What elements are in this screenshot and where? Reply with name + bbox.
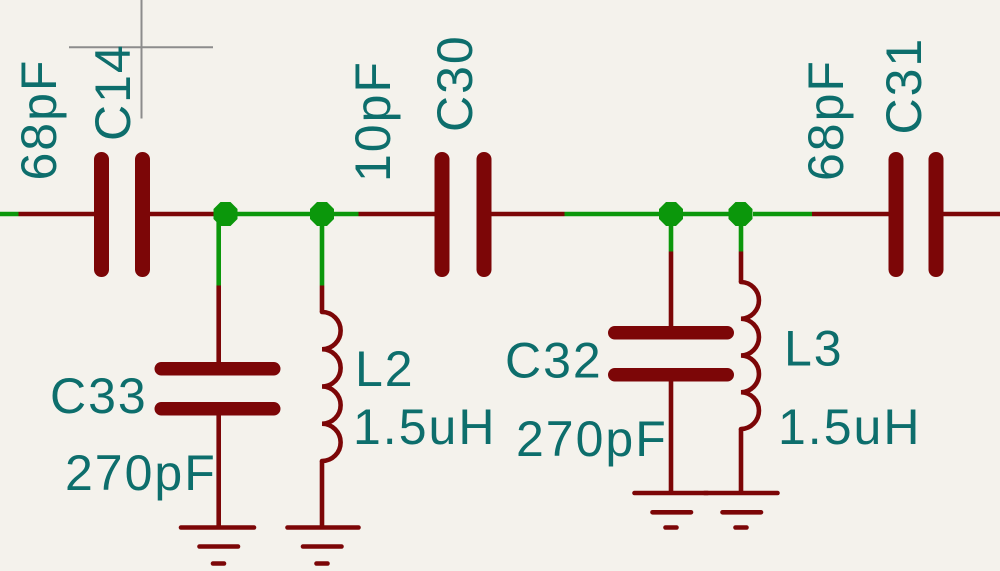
wire (C32 bottom lead, red) [669,382,674,494]
ground GND1 [181,528,254,564]
inductor L2 [322,312,341,461]
svg-text:68pF: 68pF [798,59,854,181]
node D junction [729,202,753,226]
inductor L3 [741,282,759,429]
ground GND2 [288,528,359,564]
wire (C33 bottom lead, red) [216,416,221,528]
svg-text:10pF: 10pF [345,60,401,182]
wire (L2 top lead, red) [320,286,325,313]
wire (L2 bottom lead, red) [320,461,325,528]
ground GND4 [705,493,778,528]
wire (C14 pin 1 lead, red) [19,212,95,217]
wire (node B to C30, green) [334,212,359,217]
wire (L3 top lead, red) [739,252,744,283]
svg-text:1.5uH: 1.5uH [778,399,921,455]
svg-text:68pF: 68pF [11,59,67,181]
node A junction [214,202,238,226]
svg-text:1.5uH: 1.5uH [353,399,496,455]
svg-text:C32: C32 [505,333,603,389]
svg-text:270pF: 270pF [65,445,217,501]
wire (node D drop, green) [739,214,744,252]
wire (node C drop, green) [669,214,674,252]
capacitor C30 [435,152,492,277]
wire (C30 to node C, green) [565,212,672,217]
capacitor C33 [155,362,281,416]
wire (C31 pin 2 lead to right edge, red) [944,212,1000,217]
wire (C30 pin 2 lead, red) [492,212,565,217]
ground GND3 [635,493,708,528]
wire (C31 pin 1 lead, red) [812,212,889,217]
capacitor C31 [889,152,944,277]
wire (node B drop, green) [320,214,325,286]
wire (C30 pin 1 lead, red) [359,212,435,217]
capacitor C14 [94,152,150,277]
wire (left edge, green) [0,212,19,217]
node C junction [659,202,683,226]
capacitor C32 [608,326,734,382]
wire (C32 top lead, red) [669,252,674,329]
svg-text:C31: C31 [876,37,932,135]
node B junction [310,202,334,226]
svg-text:L2: L2 [355,341,415,397]
wire (C33 top lead, red) [216,286,221,365]
wire (node D to C31, green) [753,212,812,217]
wire (node C to node D, green) [671,212,741,217]
svg-text:C14: C14 [85,43,141,141]
wire (node A to node B, green) [215,212,322,217]
svg-text:270pF: 270pF [516,411,668,467]
svg-text:C30: C30 [427,34,483,132]
wire (L3 bottom lead, red) [739,429,744,493]
svg-text:C33: C33 [50,368,148,424]
cursor crosshair [69,0,213,119]
wire (C14 pin 2 to node, red) [150,212,215,217]
svg-text:L3: L3 [784,321,844,377]
wire (node A drop, green) [216,214,221,286]
